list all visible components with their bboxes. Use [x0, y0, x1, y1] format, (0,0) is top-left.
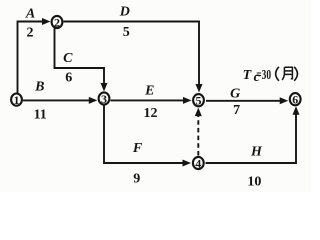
svg-text:2: 2 — [54, 15, 60, 29]
svg-text:5: 5 — [196, 94, 202, 108]
svg-text:11: 11 — [34, 108, 47, 123]
svg-text:=30: =30 — [256, 68, 271, 83]
svg-text:9: 9 — [133, 171, 140, 186]
svg-text:3: 3 — [101, 92, 107, 106]
svg-text:6: 6 — [65, 70, 72, 85]
svg-text:4: 4 — [195, 156, 201, 170]
svg-text:G: G — [230, 87, 240, 102]
svg-text:F: F — [132, 141, 143, 156]
svg-text:T: T — [243, 68, 253, 83]
svg-text:10: 10 — [247, 175, 261, 190]
svg-text:E: E — [144, 84, 154, 99]
svg-text:A: A — [25, 6, 35, 21]
svg-text:C: C — [63, 51, 73, 66]
svg-text:5: 5 — [123, 25, 130, 40]
svg-text:B: B — [34, 79, 44, 94]
svg-text:2: 2 — [27, 26, 34, 41]
svg-text:7: 7 — [233, 103, 240, 118]
svg-text:D: D — [119, 4, 130, 19]
svg-text:6: 6 — [292, 93, 298, 107]
svg-text:12: 12 — [144, 106, 158, 121]
svg-text:H: H — [250, 144, 263, 159]
svg-text:1: 1 — [14, 93, 20, 107]
